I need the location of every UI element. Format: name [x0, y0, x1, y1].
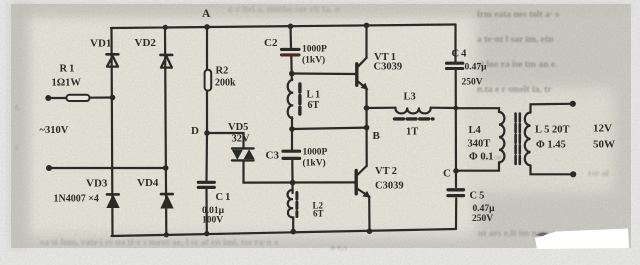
wire VD5 bottom lead to VT2 base	[244, 161, 356, 183]
svg-text:6T: 6T	[313, 209, 324, 219]
svg-text:200k: 200k	[215, 78, 236, 89]
svg-text:s: s	[15, 143, 19, 153]
svg-text:(1kV): (1kV)	[303, 158, 326, 169]
wire VT1 base	[292, 72, 356, 75]
junction at rail/VT1 collector	[364, 23, 370, 29]
svg-text:0.01μ: 0.01μ	[202, 206, 225, 216]
diode VD4	[161, 194, 173, 208]
svg-text:VD2: VD2	[135, 37, 157, 49]
input terminal 2	[46, 165, 52, 171]
svg-text:a te·nt l sar im, etn: a te·nt l sar im, etn	[477, 35, 554, 45]
output terminal top	[570, 101, 576, 107]
resistor R2	[205, 70, 212, 91]
svg-text:u r ltei a. nmthe sar elt ta,: u r ltei a. nmthe sar elt ta, n	[228, 5, 341, 15]
svg-text:C3: C3	[266, 150, 280, 162]
wire VT1 collector to top rail	[365, 25, 367, 58]
svg-text:ea st lnm, rate i es na tl·r s: ea st lnm, rate i es na tl·r s ment ae, …	[40, 238, 278, 248]
wire R1 to bridge column	[90, 96, 113, 98]
svg-text:C 5: C 5	[470, 191, 485, 202]
wire node D to C1	[205, 133, 208, 181]
node D junction	[204, 130, 210, 136]
diode VD1	[107, 54, 119, 66]
svg-text:0.47μ: 0.47μ	[473, 204, 496, 214]
svg-text:a e,s: a e,s	[330, 243, 348, 253]
svg-text:L4: L4	[469, 125, 482, 136]
svg-text:1000P: 1000P	[302, 45, 327, 55]
capacitor C2	[282, 49, 300, 55]
wire R2 upper lead	[206, 27, 208, 70]
capacitor C5	[448, 190, 464, 196]
wire L2 to bottom rail	[292, 218, 294, 232]
inductor L2	[288, 190, 297, 217]
junction VD4/bottom rail	[164, 232, 169, 237]
svg-text:C2: C2	[264, 37, 278, 49]
svg-text:1T: 1T	[406, 127, 418, 138]
svg-text:(1kV): (1kV)	[302, 55, 325, 66]
capacitor C3	[283, 151, 300, 158]
wire top rail A	[111, 25, 456, 29]
wire C1 to bottom rail	[205, 189, 208, 234]
svg-text:D: D	[191, 125, 199, 137]
svg-text:st lne ra ise tm an e.: st lne ra ise tm an e.	[477, 60, 557, 70]
capacitor C1	[198, 182, 214, 187]
svg-text:R 1: R 1	[60, 64, 75, 75]
junction C3/L2/VD5	[290, 180, 296, 186]
zener VD5 (bidirectional)	[232, 148, 254, 160]
wire C2 top lead	[289, 26, 292, 48]
wire VD5 top lead from node D	[207, 133, 244, 148]
junction input2/bridge	[163, 165, 169, 171]
junction VT2 emitter/bottom rail	[367, 228, 373, 234]
svg-text:tse al: tse al	[588, 169, 609, 179]
svg-text:t.: t.	[15, 103, 21, 113]
output terminal bottom	[570, 171, 576, 177]
wire C4 to node C	[455, 71, 457, 188]
capacitor C4	[447, 63, 463, 68]
diode VD3	[107, 194, 119, 207]
wire C5 to bottom rail	[455, 199, 457, 230]
svg-text:C: C	[443, 168, 451, 180]
junction at rail/VD2	[163, 25, 168, 30]
wire L4 top lead	[456, 108, 499, 112]
node C junction	[453, 168, 459, 174]
svg-text:1Ω1W: 1Ω1W	[52, 78, 82, 89]
wire node B to transistor column	[292, 128, 367, 129]
junction C4/L3/L4	[453, 106, 458, 111]
svg-text:1000P: 1000P	[303, 148, 328, 158]
wire L5 top lead to output terminal	[531, 104, 572, 113]
wire R2 to node D	[206, 91, 208, 134]
resistor R1	[67, 95, 90, 101]
junction L2/bottom rail	[290, 229, 296, 235]
wire VD2/VD4 column	[165, 27, 166, 234]
junction C1/bottom rail	[204, 231, 209, 236]
svg-text:50W: 50W	[593, 139, 615, 151]
inductor L4 (transformer primary)	[499, 112, 504, 162]
svg-text:100V: 100V	[202, 216, 223, 226]
wire C3 to VD5 tap	[291, 160, 294, 193]
svg-text:n.ta e r smelt ia, tr: n.ta e r smelt ia, tr	[477, 85, 552, 95]
node B junction	[364, 125, 370, 131]
svg-text:250V: 250V	[472, 214, 493, 224]
svg-text:6T: 6T	[308, 100, 320, 111]
svg-text:250V: 250V	[462, 78, 483, 88]
svg-text:R2: R2	[216, 66, 229, 77]
white watermark patch	[535, 229, 629, 250]
svg-text:~310V: ~310V	[40, 125, 69, 136]
wire L3 to C4 column	[431, 107, 456, 110]
svg-text:1N4007 ×4: 1N4007 ×4	[54, 194, 99, 205]
svg-text:Φ 0.1: Φ 0.1	[469, 152, 493, 163]
svg-text:L 5 20T: L 5 20T	[535, 125, 569, 136]
svg-text:0.47μ: 0.47μ	[465, 63, 488, 73]
wire C4 column top	[454, 25, 456, 63]
wire VT1 emitter down through node B to VT2 collector	[365, 89, 367, 167]
circuit drawing	[45, 23, 576, 238]
svg-text:VD5: VD5	[228, 122, 248, 133]
svg-text:VD1: VD1	[90, 38, 111, 50]
junction VT1 emitter/L3	[364, 105, 370, 111]
svg-text:L3: L3	[404, 92, 416, 103]
wire C2 to L1 (VT1 base tap)	[290, 57, 293, 81]
wire VD1/VD3 column	[112, 28, 113, 236]
svg-text:340T: 340T	[468, 139, 491, 150]
svg-text:L 1: L 1	[307, 90, 321, 101]
svg-text:B: B	[373, 130, 381, 142]
wire bottom rail	[112, 229, 457, 236]
svg-text:C 1: C 1	[216, 192, 231, 203]
junction L1/C3/node B wire	[289, 126, 295, 132]
svg-text:Φ 1.45: Φ 1.45	[536, 140, 566, 151]
input terminal 1	[45, 95, 51, 101]
wire L5 bottom lead to output terminal	[531, 166, 573, 175]
inductor L3	[395, 108, 434, 119]
svg-text:lrm eata nes tolt a· s: lrm eata nes tolt a· s	[477, 10, 559, 20]
svg-text:C3039: C3039	[375, 181, 404, 192]
junction at rail/C2	[288, 24, 294, 30]
inductor L1	[288, 80, 300, 119]
node A junction	[204, 24, 210, 30]
wire input terminal 1 to R1	[50, 97, 67, 99]
svg-text:VD3: VD3	[86, 178, 108, 190]
svg-text:32V: 32V	[232, 134, 251, 145]
svg-text:C3039: C3039	[374, 62, 403, 73]
svg-text:VD4: VD4	[137, 177, 159, 189]
svg-text:A: A	[202, 8, 211, 20]
svg-text:C 4: C 4	[452, 49, 468, 60]
wire VT2 emitter to bottom rail	[368, 197, 370, 232]
inductor L5 (transformer secondary)	[525, 112, 531, 165]
wire input terminal 2 to VD2/VD4 column	[51, 167, 166, 169]
junction R1/bridge	[110, 95, 116, 101]
svg-text:12V: 12V	[593, 123, 612, 135]
transformer core	[516, 114, 520, 165]
transistor VT1	[357, 58, 368, 90]
junction C2/L1/VT1 base	[289, 71, 295, 77]
svg-text:VT 2: VT 2	[375, 166, 397, 177]
transistor VT2	[356, 166, 370, 197]
wire L4 bottom lead	[456, 162, 499, 170]
wire L1 to node B tap	[291, 117, 293, 149]
wire VT1 emitter to L3	[367, 107, 396, 110]
diode VD2	[161, 55, 173, 68]
